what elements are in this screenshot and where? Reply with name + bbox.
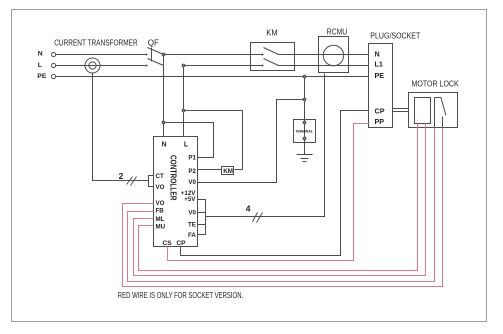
breaker QF blade L: [148, 59, 164, 66]
ground: [297, 155, 313, 162]
wire VO to terminal junction: [198, 100, 305, 183]
red wire ML loop to motor lock: [134, 124, 426, 276]
wire CP-PP double link to motor lock: [393, 109, 409, 112]
wire L rail left: [56, 65, 147, 67]
svg-text:CT: CT: [156, 173, 164, 180]
motor lock switch blade: [435, 98, 446, 116]
svg-text:PE: PE: [37, 73, 47, 80]
wire P1 branch: [164, 123, 214, 158]
RCMU circle: [323, 45, 343, 65]
svg-text:4: 4: [246, 204, 251, 214]
svg-text:FB: FB: [156, 208, 165, 215]
contactor KM blade N: [264, 48, 279, 55]
red wire CS to PP: [168, 124, 369, 261]
contactor KM box: [251, 43, 295, 71]
terminal box: [294, 120, 316, 143]
svg-text:2: 2: [119, 171, 124, 181]
contact point QF N: [146, 54, 148, 56]
bracket controller right 5V-VO-TE-FA: [198, 200, 206, 235]
wire-count slash on 2: [127, 177, 137, 186]
svg-text:CP: CP: [176, 240, 186, 247]
svg-text:RCMU: RCMU: [327, 28, 348, 37]
red wire VO loop to motor lock: [123, 128, 443, 287]
svg-text:V0: V0: [188, 210, 196, 217]
input terminal N: [51, 52, 55, 56]
wire L rail mid: [184, 65, 263, 67]
svg-text:N: N: [375, 49, 380, 58]
wire L drop to controller: [183, 66, 185, 137]
wire N drop to controller: [163, 55, 165, 137]
svg-text:N: N: [38, 50, 43, 57]
input terminal PE: [51, 74, 55, 78]
red wire FB loop to motor lock: [128, 128, 435, 282]
red wire MU loop to motor lock: [139, 124, 418, 271]
wire PE rail: [56, 76, 369, 78]
svg-text:VO: VO: [156, 200, 165, 207]
wire N rail left: [56, 54, 147, 56]
contactor KM blade L: [264, 59, 279, 66]
svg-text:N: N: [161, 141, 166, 148]
controller U1 box: [154, 137, 198, 247]
svg-text:L: L: [38, 62, 42, 69]
KM coil label box: [222, 167, 234, 175]
wire-count slash on 4: [253, 213, 263, 223]
svg-text:RED WIRE IS ONLY FOR SOCKET VE: RED WIRE IS ONLY FOR SOCKET VERSION.: [118, 291, 243, 300]
motor lock inner block: [415, 98, 431, 124]
wire N rail mid: [164, 54, 263, 56]
wire KM coil to P2: [198, 169, 222, 171]
wire PE drop through terminal to ground: [304, 77, 306, 155]
terminal block pin bottom: [303, 137, 306, 140]
svg-text:CONTROLLER: CONTROLLER: [168, 155, 177, 201]
contact point QF L: [146, 65, 148, 67]
svg-text:ML: ML: [156, 216, 165, 223]
svg-text:KM: KM: [266, 29, 278, 38]
breaker QF linkage: [151, 48, 153, 62]
bracket controller left CT-VO: [149, 176, 154, 187]
svg-text:PLUG/SOCKET: PLUG/SOCKET: [370, 31, 420, 40]
terminal block pin top: [303, 121, 306, 124]
wire CP black from plug to controller: [181, 111, 369, 256]
svg-text:L: L: [184, 141, 189, 148]
motor lock switch pole: [434, 98, 436, 128]
svg-text:FA: FA: [188, 232, 196, 239]
svg-text:CP: CP: [375, 106, 385, 115]
svg-text:TERMINAL: TERMINAL: [295, 130, 313, 134]
current transformer donut: [85, 58, 100, 73]
node VO terminal tap: [303, 98, 306, 101]
wire P2 to KM coil branch: [184, 111, 243, 170]
plug/socket box: [369, 44, 393, 128]
node QF out N: [162, 53, 165, 56]
svg-text:PE: PE: [375, 71, 385, 80]
input terminal L: [51, 63, 55, 67]
svg-text:TE: TE: [188, 222, 196, 229]
contact point KM L: [262, 65, 264, 67]
RCMU box: [319, 37, 349, 73]
breaker QF blade N: [148, 48, 164, 55]
svg-text:P1: P1: [188, 155, 196, 162]
node P1 branch: [162, 121, 165, 124]
svg-text:CURRENT TRANSFORMER: CURRENT TRANSFORMER: [54, 38, 138, 47]
svg-text:V0: V0: [188, 179, 196, 186]
svg-text:CS: CS: [163, 240, 173, 247]
svg-text:VO: VO: [156, 184, 165, 191]
node PE terminal tap: [303, 75, 306, 78]
svg-text:P2: P2: [188, 168, 196, 175]
contact point KM N: [262, 54, 264, 56]
svg-text:MU: MU: [156, 223, 166, 230]
wire 4-wire bundle to RCMU: [206, 74, 325, 217]
svg-text:+5V: +5V: [184, 196, 196, 203]
svg-text:KM: KM: [223, 168, 233, 175]
motor lock switch stub: [442, 117, 444, 128]
svg-text:PP: PP: [375, 117, 385, 126]
svg-text:L1: L1: [375, 60, 383, 69]
svg-text:QF: QF: [148, 38, 159, 47]
node P2 branch: [182, 109, 185, 112]
wire L rail right: [278, 65, 369, 67]
wire N rail right: [278, 54, 369, 56]
wire 2-wire bundle CT to controller: [93, 73, 149, 181]
node QF out L: [182, 64, 185, 67]
svg-text:MOTOR LOCK: MOTOR LOCK: [412, 80, 460, 89]
motor lock box: [409, 93, 458, 128]
